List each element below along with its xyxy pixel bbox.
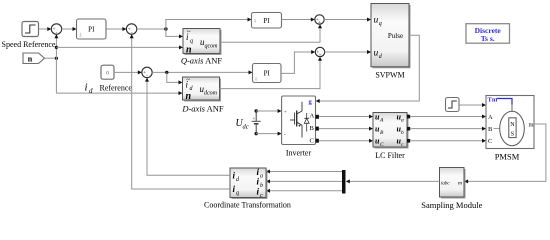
wire inverter B to LC filter	[319, 127, 373, 131]
wire n tag to feedback bus	[45, 57, 59, 60]
svg-text:~: ~	[186, 76, 190, 84]
svg-text:a: a	[401, 118, 404, 124]
svg-text:⇩: ⇩	[254, 77, 258, 82]
sum S3	[142, 67, 152, 79]
svg-text:Speed Reference: Speed Reference	[2, 40, 56, 49]
inverter output nubs A B C	[316, 115, 319, 143]
wire u_dcom to sum S5	[220, 57, 323, 89]
svg-text:D-axis ANF: D-axis ANF	[181, 104, 224, 114]
svg-text:qcom: qcom	[205, 44, 219, 50]
wire u_qcom to sum S4	[220, 24, 322, 42]
block SVPWM	[371, 4, 411, 69]
wire n to D-axis ANF n input	[56, 91, 182, 95]
wire Tm step to PMSM Tm	[459, 103, 486, 107]
wire sampling module to demux	[346, 179, 440, 183]
svg-text:PI: PI	[88, 26, 95, 34]
svg-text:Coordinate Transformation: Coordinate Transformation	[204, 201, 291, 210]
svg-text:Reference: Reference	[100, 84, 133, 93]
wire demux to CT i_c	[266, 189, 342, 193]
svg-text:Inverter: Inverter	[286, 149, 312, 158]
svg-text:+: +	[253, 117, 256, 122]
svg-text:C: C	[310, 138, 314, 145]
svg-text:Pulse: Pulse	[388, 32, 403, 40]
svg-text:A: A	[379, 118, 384, 124]
svg-text:PI: PI	[264, 70, 271, 78]
wire node B down to D-axis ANF input	[167, 72, 183, 84]
svg-text:iabc: iabc	[441, 182, 450, 187]
svg-text:c: c	[260, 193, 263, 199]
svg-text:+: +	[318, 20, 321, 26]
sum S5	[315, 47, 324, 58]
svg-text:⇩: ⇩	[253, 18, 257, 23]
wire demux to CT i_b	[266, 179, 342, 183]
constant block 0 (i_d reference)	[101, 65, 114, 79]
wire dc source plus to inverter	[256, 109, 281, 113]
svg-text:B: B	[310, 125, 315, 132]
block Coordinate Transformation	[230, 167, 268, 199]
svg-text:m: m	[529, 122, 534, 129]
wire dc source minus to inverter	[256, 132, 281, 136]
svg-text:C: C	[488, 138, 492, 145]
svg-text:q: q	[379, 21, 382, 27]
svg-text:LC Filter: LC Filter	[375, 151, 405, 160]
svg-text:Tm: Tm	[488, 97, 498, 104]
block PMSM	[486, 96, 534, 149]
wire inverter C to LC filter	[319, 139, 373, 143]
block LC Filter	[373, 113, 409, 149]
svg-text:n: n	[186, 91, 192, 102]
wire 0 to sum S3	[114, 70, 142, 74]
svg-text:N: N	[510, 122, 515, 128]
sum S2	[126, 24, 136, 36]
svg-text:Ts s.: Ts s.	[481, 34, 495, 43]
wire sum S5 to SVPWM u_d	[325, 50, 371, 54]
svg-text:B: B	[488, 126, 493, 133]
wire node A up to PI2 current q controller	[166, 18, 252, 30]
svg-text:q: q	[236, 191, 239, 197]
svg-text:S: S	[511, 132, 514, 138]
svg-text:m: m	[458, 181, 462, 187]
wire inverter A to LC filter	[319, 115, 373, 119]
svg-text:C: C	[380, 142, 384, 148]
svg-text:PMSM: PMSM	[495, 152, 520, 162]
wire LC u_a to PMSM A	[410, 115, 486, 119]
wire sum S4 to SVPWM u_q	[324, 18, 371, 22]
svg-text:⇩: ⇩	[78, 33, 82, 39]
block D-axis ANF	[183, 76, 222, 102]
svg-text:n: n	[28, 54, 33, 63]
wire demux to CT i_a	[266, 170, 342, 174]
PI controller PI3 current d loop	[253, 64, 282, 83]
dc source U_dc label	[236, 118, 249, 131]
wire step to sum S1	[39, 27, 52, 31]
wire sum S1 to PI1	[62, 27, 77, 31]
svg-text:a: a	[260, 173, 263, 179]
wire PMSM m to sampling module	[464, 124, 546, 183]
block Sampling Module	[440, 168, 466, 199]
wire n vertical bus	[54, 34, 58, 93]
svg-text:~: ~	[187, 28, 191, 36]
wire LC u_b to PMSM B	[410, 127, 486, 131]
demux	[342, 170, 346, 194]
powergui block Discrete	[466, 24, 510, 44]
svg-text:d: d	[89, 87, 93, 95]
svg-text:+: +	[319, 52, 322, 58]
dc voltage source battery	[252, 109, 261, 135]
svg-text:i: i	[85, 82, 88, 94]
step source Tm	[446, 98, 460, 112]
svg-text:A: A	[310, 113, 315, 120]
svg-text:PI: PI	[263, 17, 270, 25]
wire node A down to Q-axis ANF input	[166, 29, 183, 38]
wire sum S2 to branch node A	[137, 27, 168, 30]
block Q-axis ANF	[183, 28, 222, 55]
wire LC u_c to PMSM C	[410, 139, 486, 143]
svg-text:A: A	[488, 114, 493, 121]
PI controller PI1 speed loop	[77, 19, 107, 39]
svg-text:Sampling Module: Sampling Module	[421, 200, 482, 210]
LC filter output nubs	[407, 115, 410, 143]
wire sum S3 to branch node B and PI3	[152, 70, 252, 74]
wire CT i_d feedback to sum S3	[145, 78, 230, 176]
sum S4	[315, 15, 324, 26]
svg-text:dc: dc	[243, 124, 249, 131]
label i_d Reference	[85, 82, 133, 96]
svg-text:dcom: dcom	[204, 91, 218, 97]
svg-text:+: +	[284, 111, 287, 116]
sum S1	[51, 24, 61, 36]
wire PI1 to sum S2	[106, 27, 126, 31]
wire n to Q-axis ANF n input	[56, 45, 183, 49]
svg-text:SVPWM: SVPWM	[375, 71, 404, 80]
PI controller PI2 current q loop	[252, 13, 282, 29]
svg-text:b: b	[401, 130, 404, 136]
from tag n	[23, 53, 45, 64]
inverter IGBT icon	[290, 102, 309, 138]
svg-text:n: n	[186, 45, 192, 56]
wire PI2 to sum S4	[282, 18, 315, 22]
wire CT i_q feedback to sum S2	[130, 34, 230, 189]
wire PI3 to sum S5	[281, 50, 315, 73]
step source Speed Reference	[22, 22, 39, 37]
svg-text:Q-axis ANF: Q-axis ANF	[181, 56, 223, 66]
wire SVPWM Pulse to inverter gate g	[316, 35, 420, 103]
svg-text:b: b	[260, 183, 263, 189]
block Inverter	[282, 96, 316, 145]
